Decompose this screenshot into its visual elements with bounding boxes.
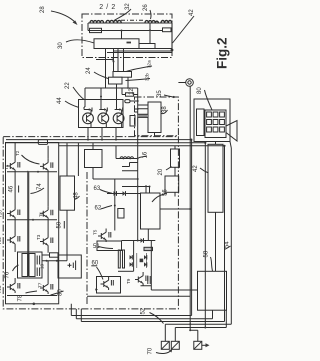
box 38 [148, 102, 161, 133]
wire [88, 29, 172, 32]
svg-text:80: 80 [197, 87, 203, 94]
left analog box [6, 143, 59, 304]
radio block 42 [208, 144, 223, 212]
svg-text:42: 42 [193, 165, 199, 172]
connector S3 [194, 341, 210, 349]
wire top winding rail [88, 22, 172, 24]
diode row 16 [116, 158, 138, 160]
keypad unit 80 [194, 99, 230, 142]
main vertical bus [137, 88, 139, 241]
bus row1 [7, 171, 57, 173]
supply rail 3 [59, 145, 225, 147]
gray bus [27, 172, 29, 277]
inductor L1b [106, 20, 121, 23]
svg-text:48: 48 [74, 192, 80, 199]
svg-text:2 / 2: 2 / 2 [99, 4, 116, 11]
wire [67, 143, 78, 255]
box 56 [141, 193, 161, 229]
rail junctions [87, 139, 89, 141]
svg-text:T9: T9 [126, 278, 131, 284]
rect block right lower [165, 176, 179, 192]
wires box22 to rails [88, 128, 116, 140]
keys [207, 112, 225, 132]
supply rail 1 [6, 139, 191, 141]
right long wires [190, 86, 231, 330]
transistor T13 [7, 280, 20, 294]
wire [87, 23, 89, 31]
svg-text:28: 28 [40, 6, 46, 13]
resistor 18 [50, 253, 59, 257]
control rect [85, 150, 103, 168]
gray resistor [144, 247, 153, 250]
svg-text:16: 16 [143, 151, 149, 158]
svg-text:T2: T2 [15, 150, 20, 156]
transformer core dash [121, 19, 145, 21]
wire [114, 179, 116, 231]
svg-text:20: 20 [158, 168, 164, 175]
svg-text:58: 58 [204, 250, 210, 257]
svg-text:78: 78 [18, 294, 24, 301]
wire step [107, 44, 172, 53]
wires down from block [106, 49, 124, 89]
wires cluster [85, 77, 138, 99]
svg-text:T13: T13 [0, 285, 2, 293]
supply rail 2 [6, 142, 205, 144]
svg-text:50: 50 [57, 221, 63, 228]
outer dashed enclosure [3, 137, 178, 309]
connector S1 [161, 341, 169, 349]
wire y240 [122, 240, 156, 242]
box 48 [60, 176, 75, 210]
bottom junction [33, 303, 36, 306]
horn [226, 121, 237, 142]
rect block right upper [171, 149, 180, 167]
svg-text:12: 12 [129, 88, 135, 95]
wire below block [96, 51, 172, 60]
svg-text:38: 38 [162, 106, 168, 113]
amplifier block 30 [94, 39, 139, 49]
capacitor bars [37, 256, 39, 277]
svg-text:32b: 32b [145, 73, 150, 81]
box 58 [198, 271, 227, 310]
coupling rect B [109, 77, 123, 84]
lower mid box [97, 241, 122, 251]
bus row4 [7, 295, 57, 297]
svg-text:18: 18 [40, 263, 45, 269]
transistor T10 [7, 206, 20, 220]
coupling rect A [113, 72, 132, 78]
svg-text:T12: T12 [0, 237, 2, 245]
svg-text:56: 56 [163, 189, 169, 196]
svg-text:T: T [94, 288, 99, 291]
battery box [58, 255, 81, 278]
svg-text:22: 22 [65, 82, 71, 89]
cap rect [118, 209, 124, 219]
column wires [15, 172, 48, 281]
svg-text:76: 76 [5, 271, 11, 278]
transistor Q1 [83, 100, 94, 128]
inductor L1a [90, 21, 104, 23]
resistor R2 [163, 28, 172, 32]
transistor T11 [101, 277, 114, 291]
transistor T7 [40, 281, 53, 295]
stub wires to bus [135, 109, 138, 112]
oval component [125, 100, 130, 103]
transistor T9 [135, 272, 148, 286]
svg-text:46: 46 [9, 185, 15, 192]
svg-text:70: 70 [148, 347, 154, 354]
svg-text:26: 26 [143, 4, 149, 11]
transformer block [18, 252, 43, 278]
svg-text:30: 30 [58, 42, 64, 49]
rail component 14 [38, 140, 47, 145]
svg-text:T5: T5 [93, 229, 98, 235]
verticals [134, 241, 152, 291]
thin caps [118, 250, 120, 268]
wire 56 out [160, 208, 190, 210]
transistor T4 [7, 159, 20, 173]
svg-text:35: 35 [157, 90, 163, 97]
right edge wire [171, 23, 173, 53]
svg-text:24: 24 [86, 67, 92, 74]
bridge diodes [130, 255, 133, 259]
terminal circle [186, 79, 194, 87]
svg-text:63: 63 [94, 186, 101, 192]
inner dash partition [86, 172, 88, 306]
bus row2 [7, 219, 57, 221]
wire [122, 23, 151, 44]
bus side steps [122, 163, 150, 187]
wire row1 feeds [15, 143, 48, 159]
svg-text:44: 44 [57, 97, 63, 104]
svg-text:32: 32 [125, 3, 131, 10]
svg-text:T7: T7 [38, 282, 43, 288]
transistor T1 [40, 206, 53, 220]
small rect beside bus [130, 116, 135, 127]
transistor T5 [98, 229, 111, 243]
transistor Q3 [113, 100, 124, 128]
resistor on bus top [126, 93, 134, 96]
svg-text:T1: T1 [39, 211, 44, 217]
transistor T8 [40, 159, 53, 173]
svg-text:T4: T4 [4, 164, 9, 170]
dashed box 12 [135, 97, 179, 136]
inductor L2b [161, 20, 172, 23]
svg-text:52: 52 [141, 307, 147, 314]
diode row [107, 193, 141, 195]
svg-text:Fig.2: Fig.2 [215, 37, 230, 69]
T11 box [97, 277, 121, 294]
resistor R1 [90, 28, 102, 32]
dashed enclosure 28 [82, 14, 172, 58]
svg-text:T3: T3 [36, 234, 41, 240]
box 22 [79, 100, 124, 128]
svg-text:42: 42 [189, 9, 195, 16]
connector S2 [171, 341, 179, 349]
transistor T12 [7, 233, 20, 247]
svg-text:T10: T10 [0, 210, 3, 218]
inductor L2a [145, 21, 158, 23]
transistor T3 [40, 234, 53, 248]
transistor Q2 [98, 100, 109, 128]
